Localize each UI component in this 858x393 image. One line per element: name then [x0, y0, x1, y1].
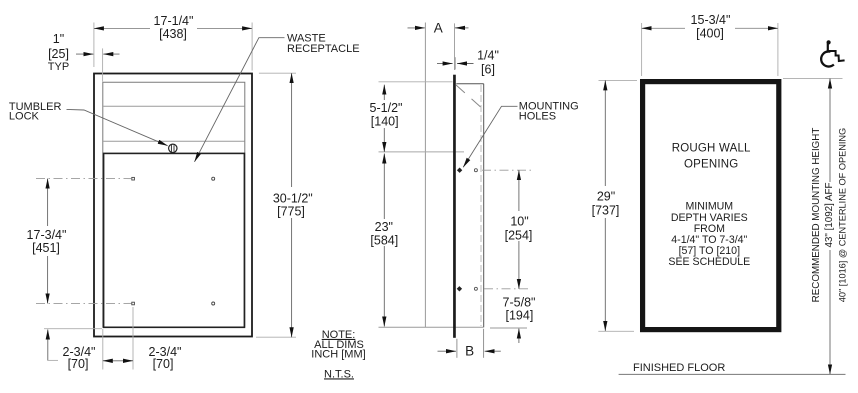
svg-text:RECOMMENDED MOUNTING HEIGHT: RECOMMENDED MOUNTING HEIGHT [811, 128, 822, 303]
svg-text:[70]: [70] [153, 357, 174, 371]
dimension 5-1/2 inch [367, 85, 403, 152]
mounting hole front bottom-left [132, 302, 135, 305]
label tumbler lock with leader [9, 101, 168, 146]
dimension 1/4 inch flange thickness [437, 48, 499, 76]
minimum depth note [668, 201, 750, 269]
centerline side top holes [482, 169, 531, 171]
svg-text:17-1/4": 17-1/4" [154, 14, 194, 28]
svg-text:[775]: [775] [277, 204, 305, 218]
svg-text:RECEPTACLE: RECEPTACLE [287, 43, 360, 55]
label mounting holes with leader [463, 100, 578, 167]
dimension 30-1/2 inch height [256, 73, 314, 337]
rough wall opening label [672, 143, 751, 171]
centerline side bottom holes [484, 288, 531, 290]
dimension 7-5/8 inch [502, 295, 537, 343]
svg-text:17-3/4": 17-3/4" [27, 228, 67, 242]
mounting height dimension line [829, 79, 831, 375]
dimension 17-1/4 inch width [94, 13, 252, 71]
body top line [456, 83, 483, 85]
svg-text:A: A [434, 21, 443, 36]
svg-text:7-5/8": 7-5/8" [503, 295, 536, 309]
label waste receptacle with leader [195, 33, 360, 162]
svg-text:ROUGH WALL: ROUGH WALL [672, 143, 751, 155]
rough wall opening box [643, 82, 779, 330]
svg-text:LOCK: LOCK [9, 111, 40, 123]
mounting hole side bottom-right [474, 287, 477, 290]
door panel [104, 153, 245, 327]
svg-text:1": 1" [53, 32, 64, 46]
section marker B [438, 329, 501, 359]
dimension 2-3/4 inch left [44, 329, 102, 371]
svg-text:[451]: [451] [32, 241, 60, 255]
mounting hole side top-right [474, 169, 477, 172]
cabinet inner trim [103, 82, 245, 327]
svg-text:OPENING: OPENING [684, 159, 738, 171]
svg-text:HOLES: HOLES [519, 111, 556, 123]
flap line lower [103, 140, 244, 142]
svg-text:INCH [MM]: INCH [MM] [311, 348, 365, 360]
svg-text:SEE SCHEDULE: SEE SCHEDULE [668, 256, 750, 268]
body hidden inner line [480, 85, 482, 326]
dimension 2-3/4 inch bottom [103, 307, 182, 371]
dimension 29 inch [587, 80, 637, 331]
svg-text:[57] TO [210]: [57] TO [210] [679, 245, 741, 257]
svg-text:FINISHED FLOOR: FINISHED FLOOR [633, 362, 725, 374]
dimension 10 inch [504, 170, 534, 289]
svg-text:[140]: [140] [371, 114, 399, 128]
flange panel [453, 75, 456, 338]
svg-text:[6]: [6] [481, 63, 495, 77]
dimension 17-3/4 inch hole spacing [24, 179, 71, 304]
svg-text:[254]: [254] [505, 228, 533, 242]
svg-text:5-1/2": 5-1/2" [370, 101, 403, 115]
flange face extension line [454, 23, 456, 70]
svg-text:B: B [465, 344, 474, 359]
mounting hole side bottom-left [457, 286, 462, 291]
svg-text:TYP: TYP [48, 61, 69, 73]
finished floor line and label [619, 362, 846, 375]
svg-text:10": 10" [510, 214, 528, 228]
mounting hole front top-left [132, 177, 135, 180]
svg-text:40" [1016] @ CENTERLINE OF OPE: 40" [1016] @ CENTERLINE OF OPENING [837, 128, 847, 302]
section marker A [408, 21, 469, 36]
svg-text:[400]: [400] [696, 26, 724, 40]
body back line [483, 84, 485, 328]
mounting hole side top-left [457, 168, 462, 173]
dimension 1 inch TYP [48, 32, 120, 81]
svg-text:[584]: [584] [370, 233, 398, 247]
mounting height rotated note [811, 128, 847, 303]
svg-text:[25]: [25] [48, 47, 69, 61]
svg-text:[737]: [737] [592, 203, 620, 217]
svg-text:23": 23" [375, 220, 393, 234]
wall opening bottom line [379, 326, 528, 329]
flange top extension line [379, 81, 453, 83]
cabinet outer box [94, 74, 252, 337]
svg-text:[70]: [70] [68, 357, 89, 371]
svg-text:[194]: [194] [505, 308, 533, 322]
depth-varies hidden diagonal [456, 85, 483, 109]
svg-text:[438]: [438] [159, 27, 187, 41]
centerline bottom holes [36, 302, 132, 304]
accessibility wheelchair icon [821, 40, 844, 68]
centerline top holes [36, 178, 131, 180]
flap line upper [103, 105, 244, 107]
svg-text:1/4": 1/4" [477, 48, 499, 62]
mounting hole front bottom-right [212, 302, 215, 305]
note block [311, 329, 365, 381]
mounting hole front top-right [212, 177, 215, 180]
wall face line [424, 23, 426, 328]
dimension 15-3/4 inch [642, 13, 778, 76]
dimension 23 inch [368, 154, 401, 327]
svg-text:MINIMUM: MINIMUM [685, 201, 733, 213]
svg-text:29": 29" [597, 189, 615, 203]
wall opening top line [379, 151, 465, 153]
tumbler lock symbol [169, 144, 177, 152]
svg-text:43" [1092] AFF: 43" [1092] AFF [824, 182, 835, 247]
svg-text:N.T.S.: N.T.S. [324, 368, 354, 380]
opening top extension line [783, 78, 843, 80]
svg-text:30-1/2": 30-1/2" [273, 191, 313, 205]
svg-text:15-3/4": 15-3/4" [691, 13, 731, 27]
